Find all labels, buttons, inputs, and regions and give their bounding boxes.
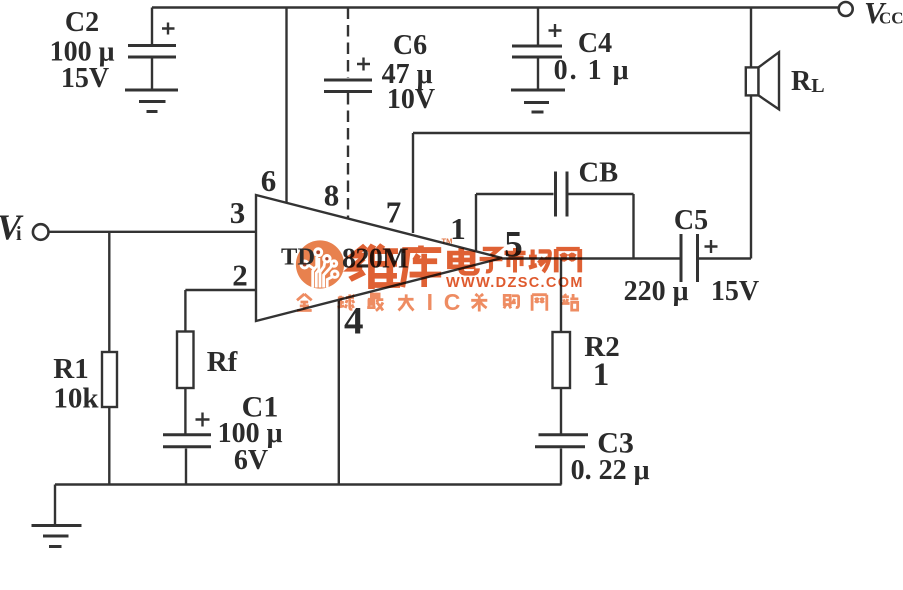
svg-text:8: 8 <box>324 178 340 213</box>
svg-text:C5: C5 <box>674 205 708 236</box>
svg-text:6V: 6V <box>234 445 268 476</box>
svg-text:6: 6 <box>261 163 277 198</box>
svg-text:TD: TD <box>281 244 315 271</box>
svg-text:CC: CC <box>879 9 903 28</box>
svg-text:220 μ: 220 μ <box>624 276 689 307</box>
svg-text:TM: TM <box>442 237 453 246</box>
svg-text:i: i <box>16 223 22 245</box>
svg-text:C: C <box>444 289 461 315</box>
svg-text:R1: R1 <box>53 353 88 385</box>
svg-text:1: 1 <box>450 211 466 246</box>
svg-text:15V: 15V <box>61 63 109 94</box>
svg-text:I: I <box>427 289 433 315</box>
svg-text:0. 1 μ: 0. 1 μ <box>554 55 631 86</box>
svg-text:7: 7 <box>386 195 402 230</box>
svg-text:0. 22 μ: 0. 22 μ <box>571 455 650 486</box>
svg-text:Rf: Rf <box>207 346 238 378</box>
svg-text:15V: 15V <box>711 276 759 307</box>
svg-text:C2: C2 <box>65 7 99 38</box>
svg-text:WWW.DZSC.COM: WWW.DZSC.COM <box>446 275 584 291</box>
svg-text:CB: CB <box>579 158 619 189</box>
svg-text:3: 3 <box>230 195 246 230</box>
svg-text:C6: C6 <box>393 30 427 61</box>
svg-text:2: 2 <box>232 258 248 293</box>
svg-text:1: 1 <box>593 357 610 393</box>
svg-text:RL: RL <box>791 66 825 97</box>
svg-text:10k: 10k <box>53 383 99 415</box>
svg-text:10V: 10V <box>387 84 435 115</box>
